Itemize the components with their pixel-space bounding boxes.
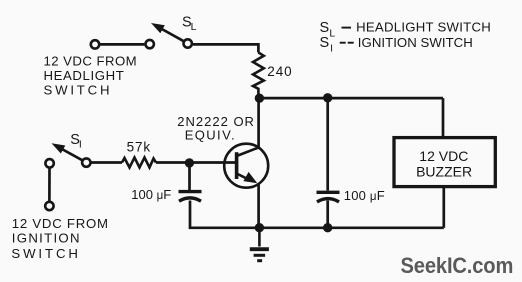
svg-text:L: L [329, 27, 335, 39]
node top of capacitor C2 [323, 93, 332, 102]
svg-text:BUZZER: BUZZER [416, 164, 472, 180]
svg-text:12 VDC FROM: 12 VDC FROM [44, 54, 138, 69]
wire top rail [259, 97, 443, 100]
wire collector lead [257, 98, 260, 148]
svg-text:I: I [79, 139, 82, 151]
ground [250, 228, 269, 261]
svg-text:EQUIV.: EQUIV. [185, 127, 236, 142]
capacitor C2 top lead [326, 98, 329, 191]
wire buzzer bottom lead [442, 187, 445, 228]
switch SI blade with arrow [52, 143, 83, 160]
svg-text:12 VDC FROM: 12 VDC FROM [12, 216, 109, 231]
svg-text:SeekIC.com: SeekIC.com [401, 254, 514, 278]
node base/capacitor C1 junction [185, 158, 194, 167]
terminal circle ignition source bottom [45, 202, 53, 210]
svg-text:S: S [320, 35, 330, 51]
legend SI = ignition switch [320, 35, 473, 55]
svg-text:I: I [330, 43, 333, 55]
svg-text:240: 240 [267, 64, 292, 79]
node collector junction [255, 94, 264, 103]
svg-text:57k: 57k [127, 139, 151, 154]
svg-text:HEADLIGHT SWITCH: HEADLIGHT SWITCH [356, 20, 491, 35]
wire 57k to transistor base [156, 161, 236, 164]
node bottom of capacitor C2 [323, 223, 332, 232]
wire between headlight source terminals [100, 43, 144, 46]
legend SL = headlight switch [320, 20, 492, 40]
wire emitter lead [257, 184, 260, 228]
buzzer U1 box [394, 138, 495, 187]
transistor Q1 2N2222 [224, 144, 268, 188]
terminal circle headlight source left [91, 40, 99, 48]
svg-text:12 VDC: 12 VDC [419, 148, 468, 164]
wire switch SI to resistor 57k [91, 161, 122, 164]
wire between ignition source terminals [48, 169, 51, 202]
resistor R1 240 [253, 53, 264, 99]
wire bottom rail [190, 201, 444, 228]
wire down to buzzer top [442, 98, 445, 136]
switch SL pivot terminal [184, 39, 192, 47]
svg-text:HEADLIGHT: HEADLIGHT [44, 68, 125, 83]
capacitor C1 top lead [188, 163, 191, 191]
terminal circle ignition source top [45, 159, 53, 167]
terminal circle headlight source right [146, 40, 154, 48]
capacitor C1 plates [179, 192, 202, 202]
svg-text:L: L [191, 21, 197, 33]
svg-text:S: S [320, 20, 330, 36]
svg-text:SWITCH: SWITCH [44, 83, 113, 98]
svg-text:SWITCH: SWITCH [11, 246, 80, 261]
svg-text:IGNITION: IGNITION [12, 231, 81, 246]
switch SI pivot terminal [82, 158, 90, 166]
node emitter/ground junction [255, 223, 264, 232]
svg-text:100 μF: 100 μF [344, 188, 385, 203]
wire switch SL to resistor 240 top [193, 44, 259, 52]
capacitor C2 plates [317, 192, 340, 202]
switch SL blade with arrow [151, 23, 184, 41]
resistor R2 57k [122, 158, 156, 168]
capacitor C2 bottom lead [326, 201, 329, 228]
svg-text:100 μF: 100 μF [131, 187, 171, 202]
svg-text:IGNITION SWITCH: IGNITION SWITCH [358, 35, 473, 50]
